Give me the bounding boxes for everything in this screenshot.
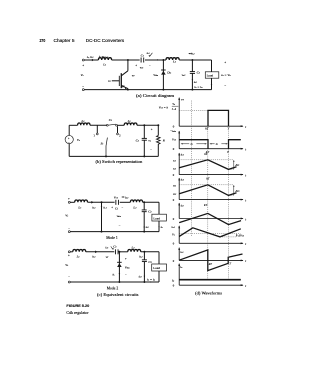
node diode junction bottom (a): [162, 89, 164, 91]
inductor L1 (mode1): [75, 200, 88, 202]
node S1 bottom (b): [105, 155, 107, 157]
waveform io time axis: [179, 284, 243, 286]
waveform iL1 dashed trough level: [229, 168, 234, 170]
svg-text:−: −: [82, 85, 84, 89]
svg-text:t: t: [245, 259, 246, 263]
svg-text:+: +: [125, 257, 127, 261]
svg-text:−: −: [122, 205, 124, 209]
diode vertical wire (mode2): [118, 252, 120, 282]
node C2 bottom (b): [143, 155, 145, 157]
source terminal - (a): [82, 89, 84, 91]
capacitor C1 (mode1): [115, 200, 117, 205]
svg-text:−: −: [150, 148, 152, 152]
node switch bottom (mode1): [101, 231, 103, 233]
inductor L1 (b): [78, 123, 90, 125]
current arrow io (mode1): [158, 227, 160, 229]
svg-text:t: t: [245, 199, 246, 203]
waveform ic2 triangle: [179, 213, 241, 224]
node emitter junction (a): [127, 89, 129, 91]
node C2 top (mode1): [143, 201, 145, 203]
svg-text:+: +: [224, 60, 226, 64]
svg-text:DC-DC Converters: DC-DC Converters: [86, 38, 125, 43]
capacitor C2 (mode1): [143, 202, 145, 210]
capacitor C2 (b): [143, 125, 145, 138]
waveform iL2 time axis: [179, 199, 243, 201]
load branch wires (mode1): [158, 202, 160, 214]
transistor Q1 body bar: [120, 73, 122, 88]
wire top rail circuit b: [69, 124, 77, 126]
load box (a): [205, 72, 219, 78]
current arrow diode (mode2): [119, 273, 121, 275]
waveform vdm high segment 1: [179, 140, 208, 149]
svg-text:+: +: [111, 205, 113, 209]
waveform vc1 time axis: [179, 242, 243, 244]
t1 interval arrows: [181, 143, 189, 145]
svg-text:t: t: [245, 125, 246, 129]
svg-text:T: T: [229, 261, 231, 265]
source Vs circle (b): [65, 135, 73, 143]
inductor L2 (mode2): [128, 249, 141, 251]
svg-text:−: −: [119, 224, 121, 228]
node C2 junction bottom (a): [191, 89, 193, 91]
waveform vdm high segment 2: [229, 140, 241, 149]
load box (mode1): [152, 214, 167, 221]
inductor L2 (a): [166, 58, 179, 60]
node C2 bottom (mode1): [143, 231, 145, 233]
waveform iL1 dashed peak level: [179, 159, 234, 161]
svg-text:kT: kT: [204, 152, 207, 156]
current arrow ic2 (mode2): [144, 276, 146, 278]
svg-text:(a) Circuit diagram: (a) Circuit diagram: [136, 94, 174, 98]
current arrow is iL1 (a): [92, 59, 94, 62]
svg-text:−: −: [68, 227, 70, 231]
svg-text:Load: Load: [153, 216, 160, 220]
source terminal - (mode2): [68, 281, 70, 283]
closed switch wire (mode1): [101, 202, 103, 231]
source terminal + (mode2): [68, 251, 70, 253]
svg-text:(d) Waveforms: (d) Waveforms: [195, 291, 222, 295]
load box (mode2): [152, 264, 167, 271]
current arrow iL2 top (mode1): [123, 196, 125, 198]
diode symbol (mode2): [117, 263, 122, 267]
transistor Q1 emitter with arrow: [121, 86, 128, 89]
waveform iL1 time axis: [179, 174, 243, 176]
wire top rail circuit a: [84, 59, 98, 61]
svg-text:−: −: [68, 274, 70, 278]
node diode bottom (mode2): [118, 281, 120, 283]
waveform ic1 time axis: [179, 259, 243, 261]
waveform vc1 wave: [179, 228, 241, 237]
wire bottom rail mode1: [70, 231, 159, 233]
node C2 top (mode2): [143, 251, 145, 253]
node switch top (mode1): [101, 201, 103, 203]
wire top rail mode2: [70, 251, 73, 253]
current arrow into C1 (mode2): [111, 246, 113, 249]
svg-text:Vc1 = k: Vc1 = k: [159, 105, 169, 109]
waveform iL2 axis vertical: [178, 178, 180, 200]
t2 interval arrows: [210, 143, 215, 145]
waveform ic1 sawtooth: [179, 250, 242, 271]
switch contact stub 1 (b): [96, 125, 98, 133]
svg-text:+: +: [82, 63, 84, 67]
dashed time grid kT: [207, 127, 209, 250]
transistor Q1 collector: [121, 71, 128, 76]
source terminal - (mode1): [68, 231, 70, 233]
waveform ic2 axis vertical: [178, 203, 180, 218]
inductor L1 (a): [98, 58, 111, 60]
waveform vT axis vertical: [178, 98, 180, 127]
resistor R (b): [157, 125, 159, 135]
waveform vT dashed level: [179, 109, 208, 111]
source terminal + (mode1): [68, 201, 70, 203]
node C2 bottom (mode2): [143, 281, 145, 283]
node C2 top (b): [143, 124, 145, 126]
delta I1 marker: [233, 161, 235, 169]
current arrow ic2 (a): [192, 79, 194, 81]
svg-text:+: +: [157, 58, 159, 62]
load branch wires (a): [211, 60, 213, 72]
waveform iL2 dashed trough level: [229, 194, 234, 196]
svg-text:FIGURE 5.20: FIGURE 5.20: [66, 303, 90, 308]
current arrow into node (a): [150, 53, 153, 57]
svg-text:Cúk regulator: Cúk regulator: [66, 310, 89, 315]
switch S1 lever (b): [106, 138, 107, 146]
wire left rail circuit b: [68, 125, 70, 135]
inductor L1 (mode2): [73, 249, 86, 251]
svg-text:kT: kT: [206, 177, 209, 181]
delta I2 marker: [233, 186, 235, 195]
wire bottom rail mode2: [70, 281, 159, 283]
svg-text:Mode 1: Mode 1: [106, 236, 118, 240]
waveform vdm axis vertical: [178, 131, 180, 149]
svg-text:(b) Switch representation: (b) Switch representation: [96, 160, 143, 164]
svg-text:Is1: Is1: [172, 159, 176, 162]
svg-text:kT: kT: [205, 127, 208, 131]
svg-text:Load: Load: [153, 266, 160, 270]
transistor Q1 gate lead: [112, 80, 120, 82]
node diode junction top (a): [162, 59, 164, 61]
waveform vT pulse: [208, 110, 229, 126]
svg-text:Load: Load: [207, 74, 214, 78]
inductor L2 (b): [124, 123, 137, 125]
svg-text:−: −: [125, 272, 127, 276]
waveform vT time axis: [179, 125, 243, 127]
svg-text:T: T: [227, 127, 229, 131]
waveform vdm time axis: [179, 148, 243, 150]
svg-text:t: t: [245, 174, 246, 178]
svg-text:I21: I21: [172, 184, 176, 187]
waveform iL1 triangle: [179, 160, 236, 170]
svg-text:(c) Equivalent circuits: (c) Equivalent circuits: [97, 293, 139, 297]
svg-text:−: −: [190, 58, 192, 62]
node R top (b): [157, 124, 159, 126]
svg-text:−: −: [224, 84, 226, 88]
wire top rail mode1: [70, 201, 74, 203]
inductor L2 (mode1): [130, 200, 142, 202]
current arrow iL2 (a): [189, 53, 192, 55]
svg-text:−: −: [149, 64, 151, 68]
current arrow io bottom (mode2): [151, 281, 153, 283]
svg-text:+: +: [68, 254, 70, 258]
load branch wires (mode2): [158, 252, 160, 264]
wire bottom rail circuit b: [69, 155, 158, 157]
dashed time grid T: [228, 129, 230, 257]
diode Dm (a): [162, 60, 164, 90]
svg-text:+: +: [135, 64, 137, 68]
node diode top (mode2): [118, 251, 120, 253]
waveform vc1 dashed Vs level: [179, 233, 240, 235]
svg-text:t: t: [245, 284, 246, 288]
svg-text:t: t: [245, 148, 246, 152]
switch contact stub 2 (b): [117, 126, 119, 133]
waveform iL2 dashed peak level: [179, 184, 234, 186]
svg-text:Mode 2: Mode 2: [107, 287, 119, 291]
waveform io axis vertical: [178, 264, 180, 286]
svg-text:Chapter 5: Chapter 5: [54, 38, 76, 43]
capacitor C1 (a): [140, 58, 142, 63]
svg-text:+: +: [151, 128, 153, 132]
switch lever across C1 span (b): [108, 124, 116, 125]
waveform ic1 axis vertical: [178, 248, 180, 261]
dashed time grid kT/2: [191, 101, 193, 237]
wire bottom rail circuit a: [84, 89, 211, 91]
svg-text:+: +: [68, 197, 70, 201]
svg-text:T: T: [227, 150, 229, 154]
capacitor C2 (mode2): [143, 252, 145, 260]
node C2 junction top (a): [191, 59, 193, 61]
current arrow ic2 (mode1): [143, 227, 145, 229]
waveform io flat line: [179, 279, 241, 281]
current arrow down switch (mode1): [101, 206, 103, 208]
current arrow iL1 (mode2): [95, 251, 97, 254]
capacitor C1 contact rings (b): [106, 124, 108, 126]
current arrow iL1 (mode1): [91, 201, 93, 204]
svg-text:270: 270: [40, 38, 46, 43]
waveform iL2 triangle: [179, 185, 236, 196]
waveform vc1 axis vertical: [178, 226, 180, 243]
node collector junction (a): [127, 59, 129, 61]
waveform ic2 time axis: [179, 218, 243, 220]
svg-text:t: t: [245, 242, 246, 246]
svg-text:R: R: [162, 139, 165, 143]
current arrow io (a): [211, 84, 213, 86]
delta Vc1 marker: [236, 234, 238, 236]
svg-text:kT: kT: [204, 203, 207, 207]
waveform iL1 axis vertical: [178, 153, 180, 175]
transistor Q1 gate bar: [118, 76, 120, 86]
svg-text:kT: kT: [209, 262, 212, 266]
svg-text:t: t: [245, 217, 246, 221]
capacitor C2 (a): [191, 60, 193, 72]
source terminal + (a): [82, 59, 84, 61]
capacitor C1 (mode2): [114, 249, 116, 254]
